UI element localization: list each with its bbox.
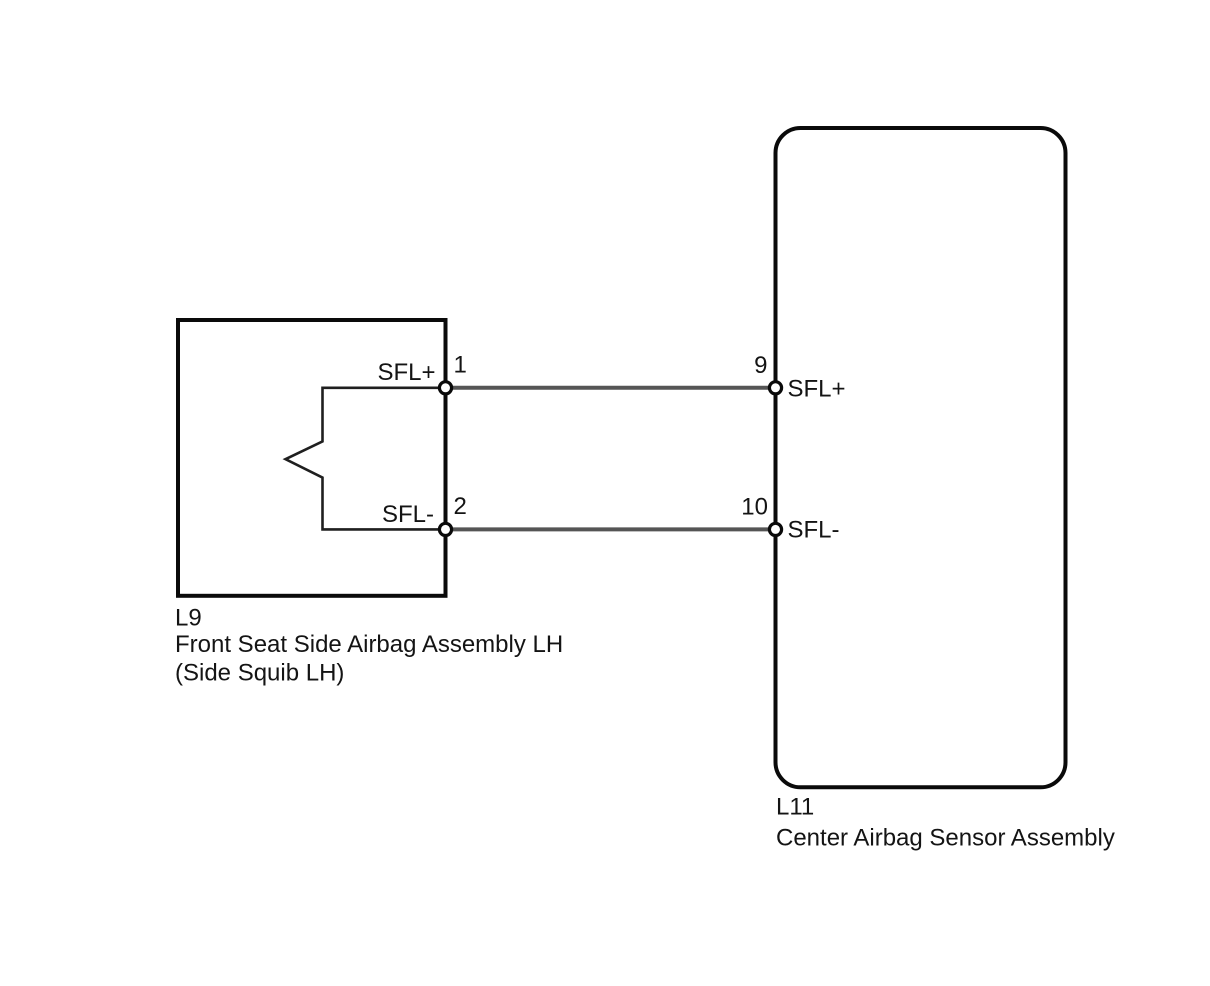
svg-text:SFL-: SFL-	[382, 501, 434, 528]
connector L11 Center Airbag Sensor Assembly box	[776, 128, 1066, 787]
wire SFL+ (pin 1 to pin 9)	[446, 386, 776, 390]
terminal pin 2	[439, 523, 451, 535]
svg-text:SFL-: SFL-	[788, 516, 840, 543]
svg-text:L11: L11	[776, 794, 814, 821]
connector L9 Front Seat Side Airbag Assembly LH box	[178, 320, 446, 596]
terminal pin 10	[769, 523, 781, 535]
svg-text:SFL+: SFL+	[788, 376, 846, 403]
svg-text:Front Seat Side Airbag Assembl: Front Seat Side Airbag Assembly LH	[175, 631, 563, 658]
svg-text:Center Airbag Sensor Assembly: Center Airbag Sensor Assembly	[776, 825, 1115, 852]
svg-text:2: 2	[454, 493, 467, 520]
svg-text:SFL+: SFL+	[377, 359, 435, 386]
svg-text:10: 10	[741, 493, 768, 520]
wire SFL- (pin 2 to pin 10)	[446, 527, 776, 531]
svg-text:(Side Squib LH): (Side Squib LH)	[175, 660, 344, 687]
terminal pin 9	[769, 382, 781, 394]
squib element inside L9	[286, 388, 446, 530]
svg-text:L9: L9	[175, 605, 202, 632]
terminal pin 1	[439, 382, 451, 394]
svg-text:1: 1	[454, 352, 467, 379]
svg-text:9: 9	[754, 352, 767, 379]
